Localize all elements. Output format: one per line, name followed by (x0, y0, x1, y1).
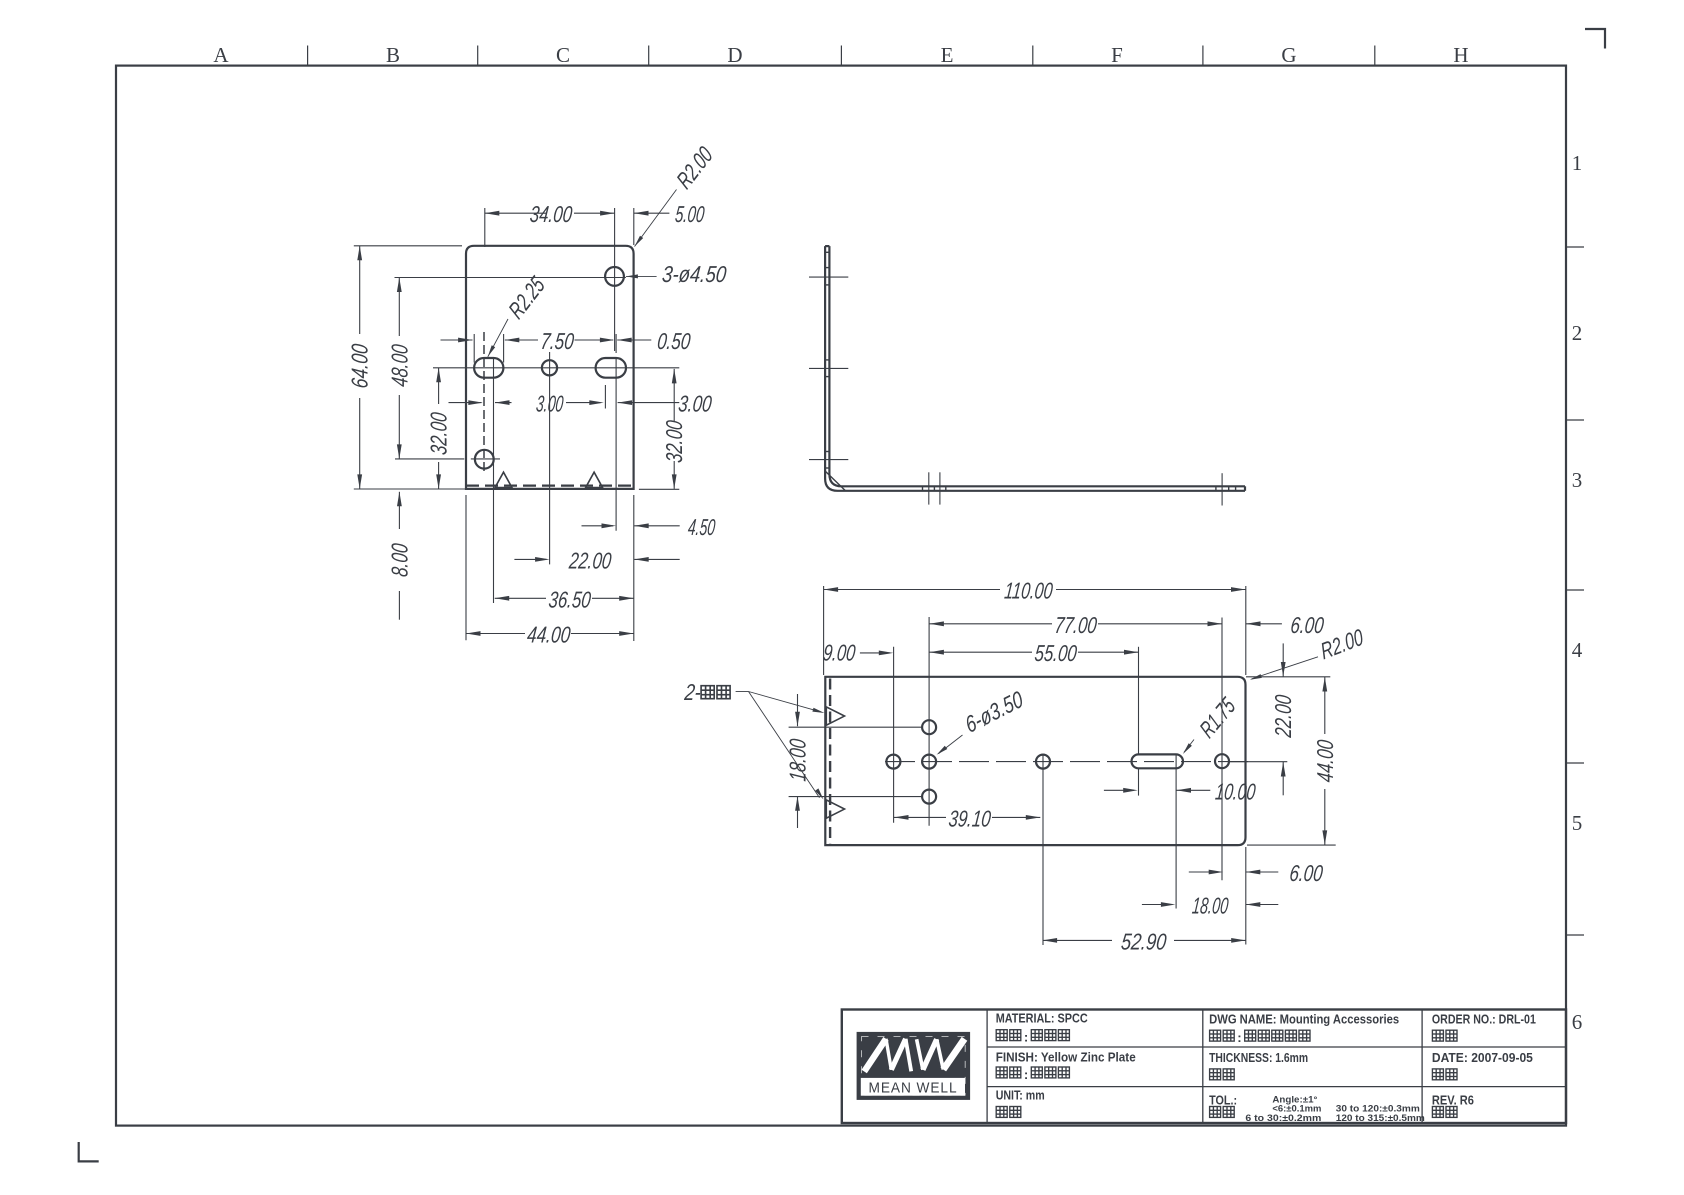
front view bend line dashed (466, 485, 634, 487)
svg-text:6.00: 6.00 (1288, 860, 1324, 886)
svg-text:REV. R6: REV. R6 (1432, 1092, 1474, 1107)
side view outer profile (825, 246, 1245, 491)
ext slot right center (1175, 756, 1177, 909)
front view bend triangle 1 (495, 472, 512, 487)
svg-text:36.50: 36.50 (547, 586, 592, 612)
leader R1.75 (1184, 740, 1194, 753)
svg-text:18.00: 18.00 (1191, 893, 1230, 919)
title text finish cjk (996, 1067, 1007, 1078)
side view inner profile (829, 246, 1245, 486)
dim 22.00 right (1282, 643, 1284, 676)
svg-text:7.50: 7.50 (539, 328, 575, 354)
svg-text:DWG NAME: Mounting Accessories: DWG NAME: Mounting Accessories (1209, 1012, 1399, 1027)
svg-text:44.00: 44.00 (1312, 739, 1338, 784)
dim 6.00 top (1246, 621, 1261, 626)
title block outer (842, 1010, 1566, 1124)
leader R2.00 front view (635, 190, 677, 247)
svg-text:10.00: 10.00 (1214, 778, 1257, 804)
dim 18.00 left (797, 694, 799, 726)
ext line plate bottom-left (354, 488, 466, 490)
svg-text:64.00: 64.00 (347, 343, 373, 390)
drawing frame border (116, 66, 1566, 1126)
dim 64.00 (359, 246, 361, 334)
svg-text:C: C (556, 43, 570, 67)
svg-text:2: 2 (1572, 321, 1583, 345)
svg-text:TOL.:: TOL.: (1209, 1092, 1237, 1107)
ext line lower hole horizontal (395, 458, 464, 460)
dim 77.00 (929, 621, 944, 626)
title text dwg cjk (1210, 1030, 1221, 1041)
leader R2.00 bottom view (1252, 657, 1319, 679)
front view plate outline (466, 246, 634, 489)
svg-text:3: 3 (1572, 468, 1583, 492)
MEAN WELL logo box (857, 1032, 971, 1100)
leader 6-o3.50 (939, 735, 963, 754)
side view top cap (825, 245, 829, 247)
ext top edge right (1246, 676, 1330, 678)
ext right hole vertical (1221, 618, 1223, 881)
dim 4.50 (582, 525, 614, 527)
svg-text:52.90: 52.90 (1120, 928, 1168, 954)
ext line right slot right center (615, 334, 617, 353)
svg-text:3.00: 3.00 (535, 391, 565, 417)
dim 39.10 (894, 815, 909, 820)
side view horizontal leg ticks (922, 486, 924, 491)
title text date cjk (1432, 1069, 1443, 1080)
row tick marks right (1566, 246, 1584, 248)
front view left slot (474, 358, 503, 378)
title text unit cjk (996, 1107, 1007, 1118)
dim 10.00 (1104, 789, 1134, 791)
svg-text:UNIT: mm: UNIT: mm (996, 1087, 1045, 1102)
ext line plate left edge below (465, 495, 467, 640)
svg-text:MEAN WELL: MEAN WELL (869, 1080, 958, 1097)
logo MEAN WELL strip (861, 1078, 965, 1096)
dim 8.00 (398, 492, 400, 529)
svg-text:B: B (386, 43, 400, 67)
svg-text:48.00: 48.00 (386, 343, 412, 388)
ext bottom hole row left (789, 796, 923, 798)
svg-text:4.50: 4.50 (687, 514, 717, 540)
svg-text:A: A (213, 43, 229, 67)
svg-text:6 to 30:±0.2mm: 6 to 30:±0.2mm (1245, 1113, 1321, 1123)
dim 44.00 right (1322, 677, 1327, 692)
svg-text:DATE: 2007-09-05: DATE: 2007-09-05 (1432, 1050, 1533, 1065)
dim 36.50 (495, 596, 510, 601)
bottom view hole middle (1036, 755, 1050, 769)
ext line 34 left vertical (484, 208, 486, 247)
dim 32.00 right (673, 369, 675, 421)
svg-text:D: D (727, 43, 742, 67)
svg-text:120 to 315:±0.5mm: 120 to 315:±0.5mm (1336, 1113, 1425, 1123)
bottom view slot (1132, 754, 1184, 768)
svg-text:6: 6 (1572, 1010, 1583, 1034)
ext middle hole vertical (1042, 754, 1044, 945)
front view middle circle (542, 360, 557, 375)
bottom view bend triangle 2 (826, 800, 844, 818)
svg-text:77.00: 77.00 (1053, 612, 1098, 638)
ext line bottom right (639, 488, 679, 490)
bottom view hole col2 bottom (922, 790, 936, 804)
svg-text::: : (1024, 1067, 1028, 1082)
svg-text:G: G (1281, 43, 1296, 67)
side view bend diagonal (826, 472, 846, 491)
svg-text:F: F (1111, 43, 1123, 67)
ext col1 vertical (893, 647, 895, 823)
ext line plate right edge below (633, 495, 635, 641)
dim 7.50 and 0.50 row (441, 339, 473, 341)
svg-text:44.00: 44.00 (526, 622, 572, 648)
svg-text:32.00: 32.00 (426, 411, 452, 456)
leader R2.25 (488, 319, 508, 357)
ext plate left above (823, 586, 825, 675)
dim 110.00 (824, 587, 839, 592)
bottom view hole col2 mid (922, 755, 936, 769)
logo MW letters (864, 1039, 886, 1072)
ext line top hole horizontal (395, 277, 626, 279)
svg-text:1: 1 (1572, 151, 1583, 175)
ext line plate top-left (354, 245, 462, 247)
dim 55.00 (929, 650, 944, 655)
dim 22.00 bottom (514, 558, 546, 560)
svg-text:MATERIAL: SPCC: MATERIAL: SPCC (996, 1011, 1088, 1026)
svg-text:4: 4 (1572, 638, 1583, 662)
title block column lines (986, 1010, 988, 1124)
svg-text:55.00: 55.00 (1033, 640, 1078, 666)
svg-text:2-: 2- (683, 679, 703, 705)
svg-text:FINISH: Yellow Zinc Plate: FINISH: Yellow Zinc Plate (996, 1049, 1136, 1064)
svg-text:39.10: 39.10 (947, 805, 992, 831)
dim 44.00 front (466, 631, 481, 636)
tick right slot left center (604, 385, 606, 409)
side view right end cap (1244, 486, 1246, 491)
svg-text:8.00: 8.00 (386, 542, 412, 578)
ext top hole row left (789, 726, 923, 728)
corner crop mark top-right (1585, 29, 1605, 49)
dim 18.00 bottom (1142, 904, 1172, 906)
svg-text:22.00: 22.00 (567, 547, 613, 573)
ext line middle circle below (549, 352, 551, 564)
svg-text:5.00: 5.00 (674, 201, 706, 227)
title text tol cjk (1210, 1107, 1221, 1118)
dim 34.00 (485, 212, 546, 214)
svg-text:5: 5 (1572, 811, 1583, 835)
ext plate right verticals (1245, 586, 1247, 675)
bottom view bend triangle 1 (826, 707, 844, 725)
title text material cjk (996, 1030, 1007, 1041)
svg-text:THICKNESS: 1.6mm: THICKNESS: 1.6mm (1209, 1050, 1308, 1065)
svg-text:H: H (1453, 43, 1468, 67)
center line slot-left-right vertical (493, 358, 495, 603)
side view leg tick marks (825, 251, 829, 253)
svg-text:32.00: 32.00 (661, 419, 687, 464)
bottom view plate outline (825, 677, 1245, 845)
side view hole center crossings vertical leg (809, 276, 848, 278)
dim 6.00 bottom (1189, 871, 1220, 873)
svg-text:ORDER NO.: DRL-01: ORDER NO.: DRL-01 (1432, 1012, 1536, 1027)
front view bend triangle 2 (586, 472, 603, 487)
svg-text:9.00: 9.00 (822, 640, 857, 666)
bottom view hole col2 top (922, 720, 936, 734)
svg-text:18.00: 18.00 (785, 738, 811, 783)
bottom view bend line dashed vertical (829, 679, 831, 844)
ext line top hole vertical (614, 208, 616, 351)
dim 52.90 (1043, 938, 1058, 943)
title text order cjk (1432, 1030, 1443, 1041)
svg-text:3.00: 3.00 (677, 391, 713, 417)
column tick marks top (307, 46, 309, 66)
corner crop mark bottom-left (79, 1142, 99, 1161)
svg-text:E: E (941, 43, 954, 67)
side view crossings horizontal leg (928, 472, 930, 504)
ext bottom edge right (1247, 844, 1336, 846)
front view lower hole (475, 450, 494, 469)
dim 5.00 (634, 212, 669, 214)
center line middle row horizontal (433, 367, 679, 369)
svg-text:3-ø4.50: 3-ø4.50 (661, 261, 728, 287)
svg-text:34.00: 34.00 (529, 201, 574, 227)
front view top hole 4.50 (605, 267, 624, 286)
center line slot-left vertical dash-dot (483, 332, 485, 472)
dim 48.00 (398, 278, 400, 337)
svg-text:0.50: 0.50 (656, 328, 692, 354)
bottom view center line horizontal (885, 761, 1249, 763)
bottom view hole col1 (886, 755, 900, 769)
title block row lines (987, 1046, 1566, 1048)
leader 3-o4.50 (626, 275, 657, 277)
front view right slot (596, 358, 626, 378)
title text thickness cjk (1210, 1069, 1221, 1080)
title text rev cjk (1432, 1107, 1443, 1118)
ext center row right (1230, 761, 1287, 763)
dim 32.00 left (438, 368, 440, 404)
svg-text::: : (1237, 1030, 1241, 1045)
ext line plate right edge above (633, 208, 635, 245)
svg-text::: : (1024, 1030, 1028, 1045)
svg-text:6.00: 6.00 (1289, 612, 1325, 638)
ext slot left center (1138, 647, 1140, 754)
svg-text:22.00: 22.00 (1270, 694, 1296, 740)
svg-text:110.00: 110.00 (1003, 578, 1054, 604)
ext col2 vertical (928, 617, 930, 826)
dim 3.00 row (449, 402, 482, 404)
bottom view hole right (1215, 754, 1229, 768)
